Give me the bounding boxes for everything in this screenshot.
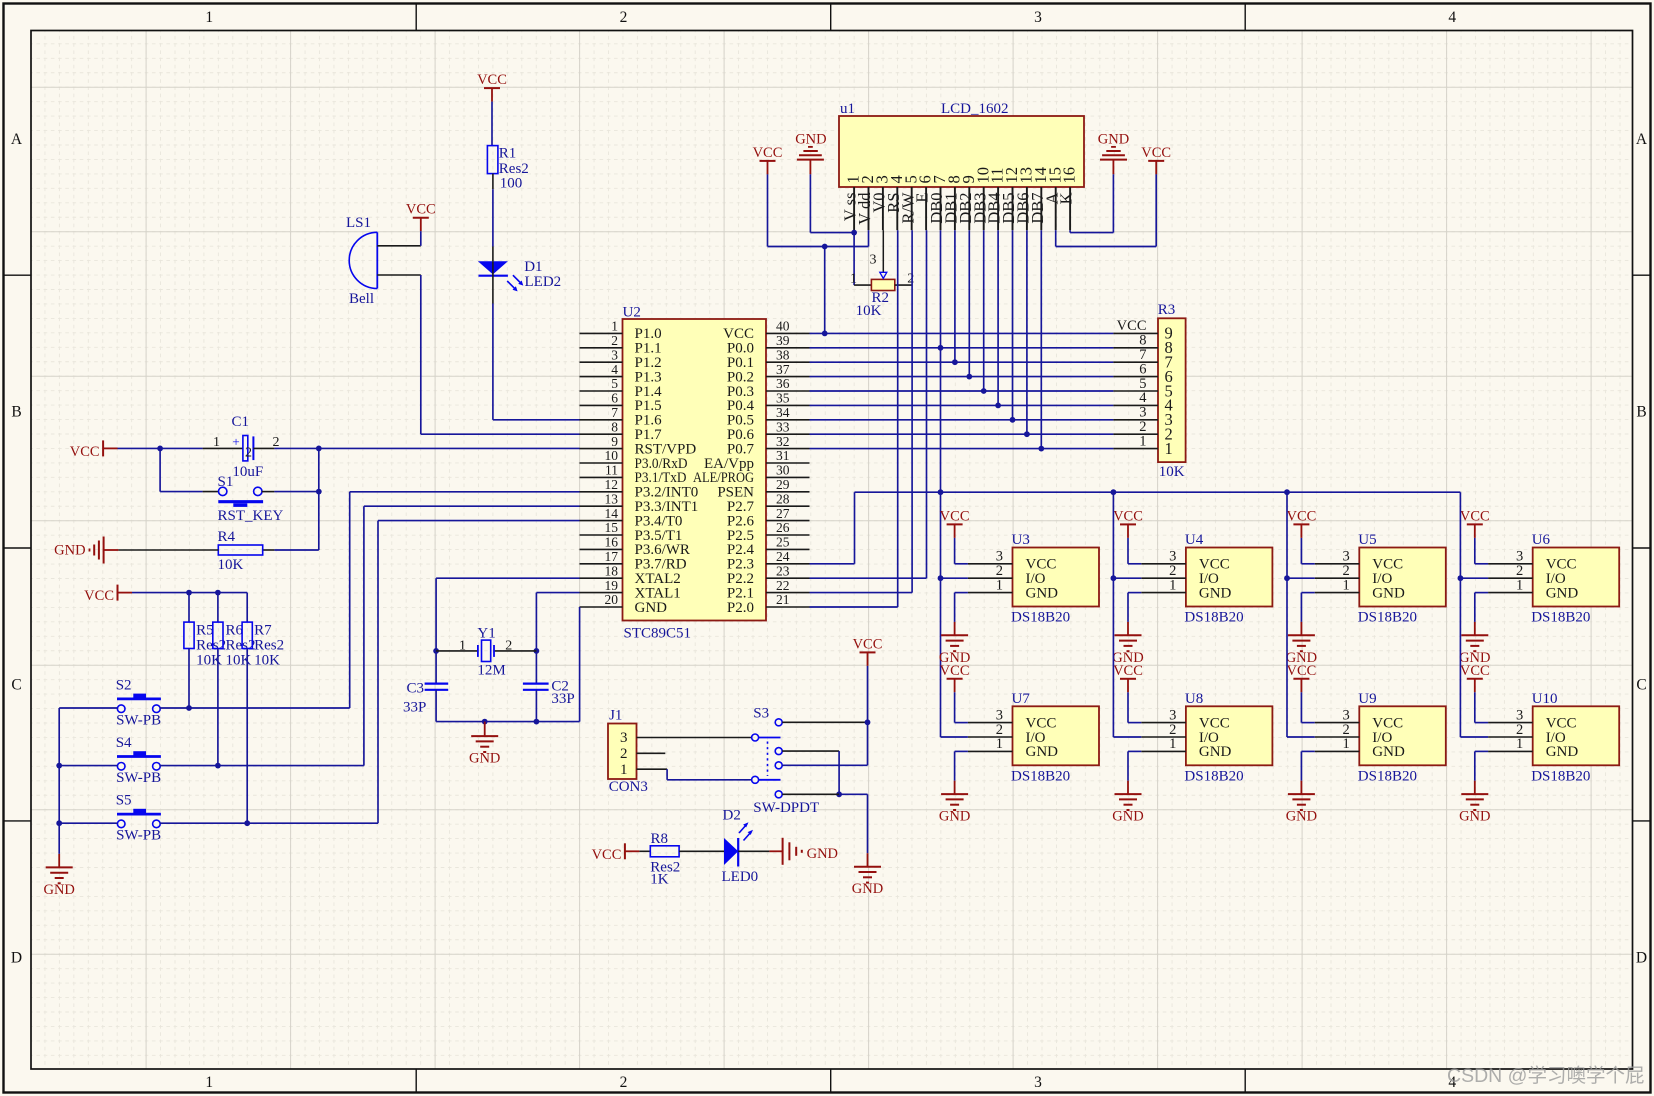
svg-text:GND: GND <box>1546 744 1579 760</box>
wire VCC to U10 <box>1474 692 1476 722</box>
junction <box>215 590 221 596</box>
svg-text:33P: 33P <box>551 691 574 707</box>
wire U2 GND pin down <box>579 607 581 722</box>
resistor R6 <box>217 593 219 623</box>
svg-text:10K: 10K <box>254 652 280 668</box>
pin R3.7 7 <box>1113 361 1158 363</box>
capacitor C2 <box>523 682 549 684</box>
wire I/O U8 <box>1113 736 1141 738</box>
wire P0.5 row to R3 <box>810 419 1114 421</box>
pin R3.4 4 <box>1113 404 1158 406</box>
wire P0.0 row to R3 <box>810 347 1114 349</box>
svg-text:Bell: Bell <box>349 291 374 307</box>
wire S2 right to P3.2 <box>160 707 350 709</box>
wire P3.4 riser <box>377 521 379 824</box>
pin u1.7 DB0 <box>940 187 942 230</box>
svg-text:6: 6 <box>611 391 618 406</box>
pin U2.27 P2.6 <box>766 520 810 522</box>
svg-text:4: 4 <box>1448 9 1456 26</box>
svg-text:18: 18 <box>605 563 619 578</box>
pin U5.1 GND <box>1315 592 1360 594</box>
junction <box>865 719 871 725</box>
svg-text:GND: GND <box>635 600 668 616</box>
wire I/O U4 <box>1113 577 1141 579</box>
wire throw2b to GND <box>782 793 839 795</box>
svg-text:CON3: CON3 <box>609 779 648 795</box>
pin U2.11 P3.1/TxD <box>580 476 623 478</box>
svg-text:D1: D1 <box>524 259 542 275</box>
svg-text:10: 10 <box>605 448 619 463</box>
svg-text:36: 36 <box>776 376 790 391</box>
junction <box>995 403 1001 409</box>
svg-text:SW-PB: SW-PB <box>116 828 161 844</box>
svg-text:1: 1 <box>1169 577 1176 593</box>
pin R3.9 VCC <box>1113 332 1158 334</box>
wire I/O U6 <box>1460 577 1488 579</box>
pin U7.3 VCC <box>968 722 1013 724</box>
svg-text:1K: 1K <box>650 872 669 888</box>
pin U8.2 I/O <box>1141 736 1186 738</box>
svg-text:13: 13 <box>605 491 619 506</box>
wire DB4 column <box>997 230 999 405</box>
pin U2.26 P2.5 <box>766 534 810 536</box>
pin U2.30 ALE/PROG <box>766 476 810 478</box>
pin U10.2 I/O <box>1488 736 1533 738</box>
svg-text:2: 2 <box>273 435 280 450</box>
svg-text:9: 9 <box>611 434 618 449</box>
svg-text:1: 1 <box>1169 736 1176 752</box>
svg-text:17: 17 <box>605 549 619 564</box>
wire DB1 column <box>954 230 956 362</box>
wire VCC to U7 <box>954 692 956 722</box>
svg-text:B: B <box>11 404 21 421</box>
svg-text:1: 1 <box>1343 577 1350 593</box>
svg-text:D: D <box>11 950 22 967</box>
svg-text:VCC: VCC <box>940 508 970 524</box>
wire DB0 column <box>940 230 942 737</box>
pin U2.20 GND <box>580 606 623 608</box>
svg-text:2: 2 <box>620 746 628 762</box>
power GND (crystal) <box>484 722 486 737</box>
svg-text:1: 1 <box>620 762 628 778</box>
wire P0.2 row to R3 <box>810 376 1114 378</box>
wire I/O U3 <box>941 577 968 579</box>
junction <box>244 820 250 826</box>
wire P2.1 to R/W <box>810 592 913 594</box>
svg-text:GND: GND <box>1459 809 1490 825</box>
svg-text:C3: C3 <box>406 681 424 697</box>
svg-text:DS18B20: DS18B20 <box>1011 610 1070 626</box>
svg-text:DS18B20: DS18B20 <box>1184 768 1243 784</box>
junction <box>482 719 488 725</box>
junction <box>1458 575 1464 581</box>
svg-text:LS1: LS1 <box>346 215 371 231</box>
wire VCC to R8 <box>639 850 650 852</box>
pin U2.7 P1.6 <box>580 419 623 421</box>
pin U2.12 P3.2/INT0 <box>580 491 623 493</box>
junction <box>316 489 322 495</box>
svg-text:U3: U3 <box>1012 532 1030 548</box>
svg-text:33: 33 <box>776 419 790 434</box>
wire I/O U9 <box>1287 736 1315 738</box>
wire Vdd drop <box>868 230 870 246</box>
wire J1.1 to S3 pole2 <box>666 769 668 780</box>
pin U2.35 P0.4 <box>766 404 810 406</box>
svg-text:R6: R6 <box>226 623 244 639</box>
wire DB3 column <box>983 230 985 391</box>
svg-text:SW-DPDT: SW-DPDT <box>753 800 819 816</box>
pin U2.9 RST/VPD <box>580 448 623 450</box>
junction <box>215 763 221 769</box>
wire GND U3 <box>955 592 968 594</box>
pin U2.13 P3.3/INT1 <box>580 505 623 507</box>
svg-text:2: 2 <box>620 1074 628 1091</box>
svg-text:R1: R1 <box>499 145 517 161</box>
pin u1.12 DB5 <box>1012 187 1014 230</box>
wire VCC to U5 <box>1300 538 1302 564</box>
pin U2.34 P0.5 <box>766 419 810 421</box>
pin U2.36 P0.3 <box>766 390 810 392</box>
pin U2.33 P0.6 <box>766 433 810 435</box>
power GND (U9) <box>1300 781 1302 794</box>
wire S3 throw1a to VCC <box>782 721 867 723</box>
svg-text:Y1: Y1 <box>477 625 495 641</box>
wire P3.3 riser <box>363 506 365 765</box>
wire P0.7 row to R3 <box>810 448 1114 450</box>
pin U2.37 P0.2 <box>766 376 810 378</box>
junction <box>1010 417 1016 423</box>
svg-text:32: 32 <box>776 434 790 449</box>
pin u1.10 DB3 <box>983 187 985 230</box>
pin R3.6 6 <box>1113 376 1158 378</box>
wire R6 to S4 row <box>217 649 219 766</box>
svg-text:21: 21 <box>776 592 790 607</box>
pin U10.1 GND <box>1488 750 1533 752</box>
pin U2.23 P2.2 <box>766 577 810 579</box>
svg-text:C1: C1 <box>232 414 250 430</box>
svg-text:15: 15 <box>605 520 619 535</box>
wire P2.0 to RS <box>810 606 898 608</box>
resistor R5 <box>188 593 190 623</box>
pin U10.3 VCC <box>1488 722 1533 724</box>
wire R4 to GND <box>118 549 218 551</box>
svg-text:R7: R7 <box>254 623 272 639</box>
pin U2.28 P2.7 <box>766 505 810 507</box>
pin U4.1 GND <box>1141 592 1186 594</box>
pin U5.3 VCC <box>1315 563 1360 565</box>
svg-text:10K: 10K <box>218 557 244 573</box>
pin U2.31 EA/Vpp <box>766 462 810 464</box>
pin u1.11 DB4 <box>997 187 999 230</box>
pin U3.3 VCC <box>968 563 1013 565</box>
wire DQ drop U6/U10 column <box>1459 492 1461 737</box>
wire throw1b to throw2b <box>782 750 839 752</box>
svg-text:23: 23 <box>776 563 790 578</box>
wire VCC to U9 <box>1300 692 1302 722</box>
pin U2.16 P3.6/WR <box>580 548 623 550</box>
pin U6.1 GND <box>1488 592 1533 594</box>
svg-text:LED2: LED2 <box>525 274 562 290</box>
pin U8.3 VCC <box>1141 722 1186 724</box>
pin U2.15 P3.5/T1 <box>580 534 623 536</box>
wire down to S1 <box>159 448 161 491</box>
pin u1.6 E <box>925 187 927 230</box>
svg-text:SW-PB: SW-PB <box>116 712 161 728</box>
svg-text:S3: S3 <box>753 705 769 721</box>
pin u1.15 A <box>1055 187 1057 230</box>
wire K to GND <box>1069 230 1071 232</box>
svg-text:33P: 33P <box>403 699 426 715</box>
wire P0.4 row to R3 <box>810 404 1114 406</box>
wire S2 left <box>59 707 117 709</box>
wire R5 to S2 row <box>188 649 190 709</box>
wire VCC to R1 <box>491 102 493 146</box>
svg-text:U6: U6 <box>1532 532 1551 548</box>
svg-text:1: 1 <box>996 736 1003 752</box>
power GND (D2) <box>769 850 782 852</box>
svg-text:K: K <box>1057 192 1076 204</box>
wire GND U9 <box>1301 750 1314 752</box>
pin J1.2 <box>637 752 666 754</box>
svg-text:STC89C51: STC89C51 <box>624 625 692 641</box>
wire R1 to D1 <box>492 174 494 190</box>
power GND (U3) <box>954 622 956 635</box>
svg-text:3: 3 <box>1034 9 1042 26</box>
junction <box>851 230 857 236</box>
pin U7.1 GND <box>968 750 1013 752</box>
svg-text:16: 16 <box>1060 167 1079 184</box>
svg-text:10K: 10K <box>856 303 882 319</box>
wire P0.1 row to R3 <box>810 361 1114 363</box>
pin R3.5 5 <box>1113 390 1158 392</box>
svg-text:VCC: VCC <box>940 663 970 679</box>
junction <box>56 763 62 769</box>
wire C1 to U2 RST <box>253 447 274 449</box>
wire P0.6 row to R3 <box>810 433 1114 435</box>
power GND (keys) <box>58 854 60 868</box>
svg-text:1: 1 <box>1343 736 1350 752</box>
wire P2.2 to E <box>810 577 927 579</box>
wire GND U7 <box>955 750 968 752</box>
svg-text:GND: GND <box>795 132 826 148</box>
wire DQ rail <box>855 491 1461 493</box>
svg-text:34: 34 <box>776 405 790 420</box>
wire VCC branch to U2 pin40 <box>824 247 826 334</box>
pin U4.2 I/O <box>1141 577 1186 579</box>
svg-text:30: 30 <box>776 463 790 478</box>
svg-text:CSDN @学习噢学个屁: CSDN @学习噢学个屁 <box>1447 1065 1644 1087</box>
junction <box>938 489 944 495</box>
svg-text:10K: 10K <box>1159 464 1185 480</box>
svg-text:S2: S2 <box>116 678 132 694</box>
wire S5 right to P3.4 <box>160 822 379 824</box>
capacitor C3 <box>425 682 449 684</box>
wire DB5 column <box>1012 230 1014 420</box>
svg-text:DS18B20: DS18B20 <box>1011 768 1070 784</box>
wire VCC drop to throw2a <box>867 666 869 765</box>
potentiometer R2 <box>871 279 894 290</box>
power GND (U6) <box>1474 622 1476 635</box>
wire DB2 column <box>968 230 970 376</box>
svg-text:4: 4 <box>611 362 618 377</box>
junction <box>1111 575 1117 581</box>
wire GND to Vss <box>809 174 811 232</box>
svg-text:VCC: VCC <box>84 588 114 604</box>
svg-text:Res2: Res2 <box>499 161 529 177</box>
junction <box>1024 431 1030 437</box>
svg-text:GND: GND <box>1372 744 1405 760</box>
svg-text:2: 2 <box>611 333 618 348</box>
power GND (U5) <box>1300 622 1302 635</box>
svg-text:GND: GND <box>1199 744 1232 760</box>
svg-text:3: 3 <box>620 730 628 746</box>
pin U2.22 P2.1 <box>766 592 810 594</box>
svg-text:LED0: LED0 <box>722 869 759 885</box>
junction <box>836 791 842 797</box>
LED D2 <box>724 838 738 865</box>
pin LS1.1 <box>377 245 421 247</box>
svg-text:8: 8 <box>611 419 618 434</box>
svg-text:GND: GND <box>54 543 85 559</box>
wire keys common down <box>58 708 60 854</box>
power GND (U8) <box>1127 781 1129 794</box>
svg-text:40: 40 <box>776 319 790 334</box>
svg-text:37: 37 <box>776 362 790 377</box>
power GND (U10) <box>1474 781 1476 794</box>
pin U9.2 I/O <box>1315 736 1360 738</box>
junction <box>822 244 828 250</box>
svg-text:VCC: VCC <box>1286 663 1316 679</box>
junction <box>966 374 972 380</box>
svg-text:VCC: VCC <box>1460 663 1490 679</box>
svg-text:RST_KEY: RST_KEY <box>218 508 284 524</box>
power GND (U4) <box>1127 622 1129 635</box>
svg-text:1: 1 <box>996 577 1003 593</box>
svg-text:20: 20 <box>605 592 619 607</box>
svg-text:VCC: VCC <box>1113 663 1143 679</box>
svg-text:GND: GND <box>1026 585 1059 601</box>
pin U5.2 I/O <box>1315 577 1360 579</box>
wire R7 to S5 row <box>246 649 248 824</box>
svg-text:14: 14 <box>605 506 619 521</box>
svg-text:C: C <box>1636 677 1646 694</box>
junction <box>1111 489 1117 495</box>
junction <box>981 388 987 394</box>
wire VCC key rail <box>132 592 247 594</box>
pin U3.1 GND <box>968 592 1013 594</box>
wire node down to R4 <box>318 448 320 550</box>
power GND (U7) <box>954 781 956 794</box>
svg-text:19: 19 <box>605 578 619 593</box>
wire DB6 column <box>1026 230 1028 434</box>
pin U2.21 P2.0 <box>766 606 810 608</box>
junction <box>534 648 540 654</box>
svg-text:3: 3 <box>611 347 618 362</box>
svg-text:1: 1 <box>1165 439 1173 458</box>
pin U2.29 PSEN <box>766 491 810 493</box>
pin U2.10 P3.0/RxD <box>580 462 623 464</box>
resistor R7 <box>246 593 248 623</box>
wire Vss node to R2 pin1 <box>853 230 855 285</box>
svg-text:R5: R5 <box>196 623 214 639</box>
junction <box>822 331 828 337</box>
power GND (S3) <box>867 853 869 867</box>
wire VCC to Vdd <box>767 174 769 246</box>
svg-text:DS18B20: DS18B20 <box>1358 610 1417 626</box>
svg-text:R4: R4 <box>218 529 236 545</box>
zone column ticks <box>415 4 417 31</box>
pin U2.2 P1.1 <box>580 347 623 349</box>
svg-text:VCC: VCC <box>592 847 622 863</box>
wire S1 to node <box>262 491 275 493</box>
svg-text:A: A <box>11 131 23 148</box>
svg-text:J1: J1 <box>609 707 622 723</box>
svg-text:DS18B20: DS18B20 <box>1531 610 1590 626</box>
svg-text:2: 2 <box>620 9 628 26</box>
svg-text:GND: GND <box>852 881 883 897</box>
svg-text:26: 26 <box>776 520 790 535</box>
svg-text:P2.0: P2.0 <box>727 600 754 616</box>
pin U2.17 P3.7/RD <box>580 563 623 565</box>
svg-text:24: 24 <box>776 549 790 564</box>
pin U2.19 XTAL1 <box>580 592 623 594</box>
svg-text:39: 39 <box>776 333 790 348</box>
svg-text:1: 1 <box>850 272 857 287</box>
resistor R1 <box>487 146 498 174</box>
svg-text:GND: GND <box>1199 585 1232 601</box>
svg-text:U5: U5 <box>1358 532 1376 548</box>
svg-text:GND: GND <box>1026 744 1059 760</box>
svg-text:38: 38 <box>776 347 790 362</box>
pin U2.39 P0.0 <box>766 347 810 349</box>
pin J1.3 <box>637 737 752 739</box>
svg-text:2: 2 <box>245 446 252 461</box>
pin u1.5 R/W <box>911 187 913 230</box>
wire A to VCC <box>1055 230 1057 246</box>
pin R3.8 8 <box>1113 347 1158 349</box>
wire VCC to U3 <box>954 538 956 564</box>
junction <box>157 446 163 452</box>
svg-text:11: 11 <box>605 463 618 478</box>
junction <box>186 705 192 711</box>
svg-text:GND: GND <box>1546 585 1579 601</box>
wire GND U8 <box>1128 750 1141 752</box>
svg-text:1: 1 <box>1516 736 1523 752</box>
pin u1.1 V ss <box>853 187 855 230</box>
pin u1.8 DB1 <box>954 187 956 230</box>
svg-text:U9: U9 <box>1358 691 1376 707</box>
wire VCC to LS1 <box>420 231 422 246</box>
junction <box>433 648 439 654</box>
pin U4.3 VCC <box>1141 563 1186 565</box>
pin U9.1 GND <box>1315 750 1360 752</box>
svg-text:29: 29 <box>776 477 790 492</box>
svg-text:GND: GND <box>469 751 500 767</box>
pin J1.1 <box>637 768 668 770</box>
LED D1 <box>478 261 508 274</box>
wire XTAL1 to C2 node <box>536 592 579 594</box>
wire GND U10 <box>1475 750 1488 752</box>
wire S5 left <box>59 822 117 824</box>
svg-text:DS18B20: DS18B20 <box>1531 768 1590 784</box>
pin U2.5 P1.4 <box>580 390 623 392</box>
pin U2.32 P0.7 <box>766 448 810 450</box>
svg-text:3: 3 <box>870 253 877 268</box>
svg-text:2: 2 <box>907 272 914 287</box>
pin U2.24 P2.3 <box>766 563 810 565</box>
svg-text:U4: U4 <box>1185 532 1204 548</box>
svg-text:GND: GND <box>1372 585 1405 601</box>
